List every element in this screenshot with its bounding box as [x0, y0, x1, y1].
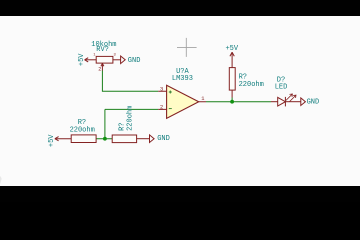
svg-text:1: 1	[201, 96, 204, 102]
svg-text:220ohm: 220ohm	[70, 126, 95, 134]
svg-text:LED: LED	[275, 84, 288, 92]
svg-text:RV?: RV?	[96, 46, 109, 54]
svg-text:LM393: LM393	[172, 75, 193, 83]
svg-text:+5V: +5V	[48, 134, 56, 147]
svg-text:2: 2	[160, 105, 163, 111]
svg-text:GND: GND	[128, 57, 141, 65]
svg-text:220ohm: 220ohm	[126, 106, 134, 131]
svg-text:GND: GND	[307, 99, 320, 107]
svg-text:2: 2	[98, 66, 101, 72]
svg-text:220ohm: 220ohm	[239, 81, 264, 89]
svg-text:+5V: +5V	[225, 45, 238, 53]
svg-text:GND: GND	[157, 135, 170, 143]
svg-text:3: 3	[160, 86, 163, 92]
svg-text:+5V: +5V	[78, 53, 86, 66]
